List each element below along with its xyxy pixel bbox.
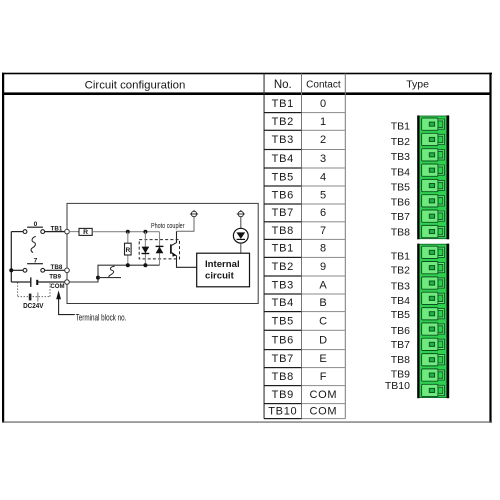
wire: stub for repeated circuits [98, 277, 121, 279]
svg-text:7: 7 [320, 225, 327, 237]
diode D1 (cathode down) [142, 247, 150, 254]
wire: COM terminal into box [69, 265, 159, 282]
svg-text:TB10: TB10 [268, 405, 297, 417]
transistor Q1 emitter with arrow [171, 252, 197, 267]
terminal TB1 circle [65, 229, 70, 234]
svg-text:6: 6 [320, 207, 327, 219]
wire: switch S7 to TB8 terminal [45, 269, 65, 271]
svg-text:TB5: TB5 [272, 315, 294, 327]
terminal block pole 2 [422, 262, 445, 274]
terminal TB8 circle [65, 268, 70, 273]
terminal block pole 4 [422, 164, 445, 176]
circuit enclosure box [67, 203, 258, 303]
terminal block pole 3 [422, 277, 445, 289]
table rows: terminal numbers and contacts [268, 98, 337, 417]
diode D2 (cathode up) [156, 247, 164, 254]
resistor R1 [79, 228, 92, 235]
svg-text:TB4: TB4 [391, 295, 410, 307]
internal circuit box U2 [197, 253, 250, 287]
switch S7 blade [27, 263, 43, 265]
svg-text:TB1: TB1 [272, 98, 294, 110]
switch S7 contact circles [23, 268, 44, 272]
terminal block pole 3 [422, 149, 445, 161]
svg-text:TB1: TB1 [272, 243, 294, 255]
svg-text:TB7: TB7 [391, 211, 410, 223]
wire: collector jog to ground G1 [177, 217, 195, 231]
terminal block pole 5 [422, 179, 445, 191]
table outer frame [2, 73, 492, 423]
svg-text:DC24V: DC24V [23, 301, 44, 310]
photocoupler LED D1 lead [144, 232, 146, 266]
battery V1 positive plate [30, 277, 32, 287]
photocoupler U1 dashed outline [139, 240, 179, 259]
terminal block pole 10 [422, 384, 445, 396]
terminal block pole 1 [422, 118, 445, 130]
terminal COM circle [65, 280, 70, 285]
wire: TB1 to resistor R1 [69, 231, 79, 233]
svg-text:TB2: TB2 [272, 116, 294, 128]
terminal block pole 8 [422, 225, 445, 237]
svg-text:TB1: TB1 [391, 121, 410, 133]
svg-text:TB8: TB8 [391, 354, 410, 366]
LED D3 indicator circle [233, 228, 248, 243]
wire: top rail from R1 to photocoupler [92, 231, 159, 233]
svg-text:TB1: TB1 [51, 225, 63, 232]
svg-text:TB2: TB2 [272, 261, 294, 273]
wire: left vertical rail [10, 232, 12, 282]
svg-text:Type: Type [406, 79, 429, 91]
terminal block connector (10 poles) [419, 244, 446, 397]
svg-text:TB2: TB2 [391, 265, 410, 277]
svg-text:COM: COM [310, 405, 338, 417]
svg-text:TB5: TB5 [391, 182, 410, 194]
resistor R2 [125, 243, 132, 255]
terminal block pole 7 [422, 338, 445, 350]
svg-text:TB3: TB3 [272, 134, 294, 146]
wire: G2 to LED D3 [240, 217, 242, 228]
svg-text:TB4: TB4 [272, 297, 294, 309]
svg-text:TB1: TB1 [391, 251, 410, 263]
svg-text:R: R [83, 229, 88, 236]
svg-text:Internal: Internal [205, 259, 240, 270]
node: junction on left rail at TB8 branch [9, 268, 13, 272]
wire: left rail to switch S7 [13, 269, 23, 271]
transistor Q1 base bar [170, 244, 172, 253]
svg-text:TB2: TB2 [391, 136, 410, 148]
svg-text:TB6: TB6 [391, 197, 410, 209]
svg-text:TB3: TB3 [391, 281, 410, 293]
svg-text:C: C [319, 315, 328, 327]
node: R2 bottom junction [126, 263, 130, 267]
terminal block pole 6 [422, 195, 445, 207]
svg-text:1: 1 [320, 116, 327, 128]
terminal block pole 8 [422, 354, 445, 366]
wire: LED D3 to internal circuit box [240, 243, 242, 253]
svg-text:TB4: TB4 [272, 153, 294, 165]
svg-text:TB7: TB7 [272, 207, 294, 219]
terminal block pole 9 [422, 369, 445, 381]
svg-text:TB4: TB4 [391, 166, 410, 178]
continuation squiggle inside box [109, 266, 115, 277]
svg-text:TB7: TB7 [272, 353, 294, 365]
photocoupler LED D2 lead [159, 232, 161, 266]
wire: battery V1 to COM terminal [38, 281, 65, 283]
terminal block pole 1 [422, 246, 445, 258]
svg-text:TB5: TB5 [391, 309, 410, 321]
wire: switch S0 to TB1 terminal [45, 231, 65, 233]
svg-text:TB6: TB6 [391, 325, 410, 337]
svg-text:9: 9 [320, 261, 327, 273]
svg-text:COM: COM [50, 283, 64, 290]
svg-text:Terminal block no.: Terminal block no. [76, 313, 127, 323]
svg-text:COM: COM [310, 389, 338, 401]
svg-text:3: 3 [320, 153, 327, 165]
svg-text:A: A [319, 279, 327, 291]
svg-text:TB8: TB8 [272, 371, 294, 383]
terminal block labels TB1-TB8 [391, 121, 410, 239]
svg-text:TB6: TB6 [272, 189, 294, 201]
node: stub junction on COM riser [96, 276, 100, 280]
svg-text:circuit: circuit [205, 270, 235, 281]
ground terminal G1 [190, 211, 198, 217]
svg-text:Photo coupler: Photo coupler [151, 221, 185, 230]
continuation squiggle between switches [31, 236, 36, 252]
terminal block pole 2 [422, 133, 445, 145]
svg-text:TB8: TB8 [272, 225, 294, 237]
svg-text:8: 8 [320, 243, 327, 255]
battery V1b (dashed alternative) thick plate [29, 294, 32, 301]
svg-text:TB8: TB8 [391, 227, 410, 239]
node: LED cathode bottom junction [143, 263, 147, 267]
wire: left rail to switch S0 [11, 231, 23, 233]
table column separators [264, 74, 346, 419]
terminal block no. pointer arrow [59, 299, 75, 315]
svg-text:TB9: TB9 [49, 273, 61, 280]
node: LED anode top junction [143, 230, 147, 234]
transistor Q1 collector [171, 231, 177, 246]
terminal block pole 4 [422, 292, 445, 304]
terminal block pole 6 [422, 323, 445, 335]
node: R2 top junction [126, 230, 130, 234]
svg-text:TB6: TB6 [272, 334, 294, 346]
battery V1 negative plate [36, 280, 38, 285]
resistor R2 leads [127, 232, 129, 266]
terminal block pole 5 [422, 308, 445, 320]
svg-text:E: E [319, 353, 327, 365]
battery V1b (dashed alternative) thin plate [37, 292, 39, 301]
terminal block labels TB1-TB10 [385, 251, 410, 392]
svg-text:2: 2 [320, 134, 327, 146]
svg-text:4: 4 [320, 171, 327, 183]
svg-text:TB9: TB9 [272, 389, 294, 401]
svg-text:No.: No. [274, 79, 292, 91]
svg-text:TB5: TB5 [272, 171, 294, 183]
svg-text:TB3: TB3 [391, 151, 410, 163]
svg-text:Circuit configuration: Circuit configuration [85, 80, 186, 92]
svg-text:TB8: TB8 [51, 264, 63, 271]
svg-text:TB9: TB9 [391, 368, 410, 380]
svg-text:TB10: TB10 [385, 380, 410, 392]
svg-text:0: 0 [320, 98, 327, 110]
svg-text:Contact: Contact [306, 80, 341, 91]
switch S0 blade [27, 226, 43, 228]
terminal block connector (8 poles) [419, 116, 446, 239]
dashed alternative polarity path [18, 283, 50, 297]
svg-text:TB3: TB3 [272, 279, 294, 291]
ground terminal G2 [237, 211, 245, 217]
table row lines [264, 112, 345, 419]
svg-text:R: R [126, 247, 131, 254]
svg-text:TB7: TB7 [391, 339, 410, 351]
svg-text:5: 5 [320, 189, 327, 201]
svg-text:F: F [320, 371, 327, 383]
svg-text:D: D [319, 334, 328, 346]
svg-text:B: B [319, 297, 327, 309]
terminal block pole 7 [422, 210, 445, 222]
wire: left rail to battery V1 [11, 281, 31, 283]
switch S0 contact circles [23, 230, 44, 234]
